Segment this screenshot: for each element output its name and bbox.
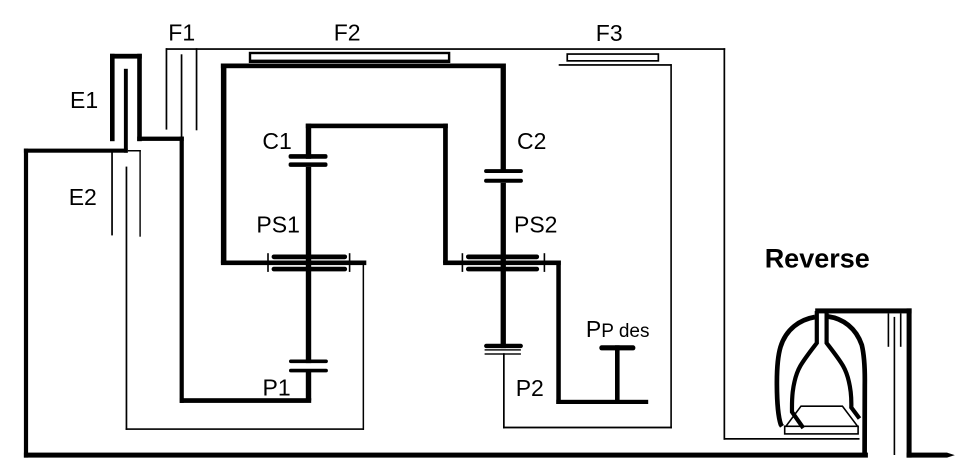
clutch C2 plates [484, 169, 523, 183]
svg-text:Reverse: Reverse [765, 244, 870, 274]
svg-text:F2: F2 [334, 19, 361, 45]
platform top face [786, 406, 858, 426]
clutch C1 shaft upper [306, 124, 311, 159]
wire output horizontal left [180, 398, 311, 403]
brake E1 drum [110, 54, 142, 141]
capacitor P2 thin plates [485, 349, 521, 354]
housing E2 box [24, 149, 128, 458]
reverse right vertical [907, 308, 912, 457]
svg-text:C1: C1 [262, 128, 291, 154]
svg-text:P2: P2 [516, 375, 544, 401]
platform front face [785, 426, 858, 434]
clutch C2 shaft upper [501, 64, 506, 170]
reverse top bar [815, 308, 911, 313]
clutch C1 plates [289, 154, 328, 167]
svg-text:F3: F3 [596, 20, 623, 46]
capacitor P1 plates [289, 360, 328, 373]
clutch E2 plates [111, 150, 141, 430]
wire F1 junction vertical [180, 137, 184, 403]
wire bottom right segment with arrow [907, 453, 955, 458]
svg-text:PS2: PS2 [514, 212, 557, 238]
planetary PS2 [443, 253, 561, 272]
svg-text:C2: C2 [517, 128, 546, 154]
clutch reverse plates [888, 313, 902, 455]
wire top case line [166, 48, 725, 50]
svg-text:PS1: PS1 [256, 211, 299, 237]
wire F3 lower link [503, 64, 672, 428]
band F3 [566, 53, 659, 62]
band F2 [249, 52, 450, 63]
wire bottom-left thin link [126, 264, 365, 430]
wire E1 to F1 corner [137, 137, 184, 141]
wire main bottom line [24, 453, 868, 458]
capacitor P2 thick plate [484, 344, 523, 348]
shaft C2 to P2 [501, 183, 506, 348]
wire case right drop [724, 48, 726, 440]
bell inner right wall [827, 313, 860, 419]
bell outer left arc [777, 317, 815, 426]
wire case bottom horizontal to bell [724, 438, 860, 440]
stopper PP des [599, 345, 635, 404]
bell inner left wall [792, 311, 817, 428]
svg-text:E1: E1 [70, 87, 98, 113]
wire PS2 right drop [556, 261, 561, 405]
wire C1 branch [306, 124, 448, 264]
brake E1 shaft plate [124, 69, 128, 153]
svg-text:E2: E2 [69, 184, 97, 210]
svg-text:P1: P1 [263, 375, 291, 401]
clutch F1 plates [166, 48, 198, 138]
svg-text:F1: F1 [168, 20, 195, 46]
frame main rectangle [221, 64, 506, 264]
shaft P1 lower [306, 372, 311, 401]
planetary PS1 [221, 253, 366, 272]
shaft C1 to P1 [306, 167, 311, 363]
bell outer right arc [828, 317, 865, 457]
wire output horizontal right [556, 400, 648, 404]
